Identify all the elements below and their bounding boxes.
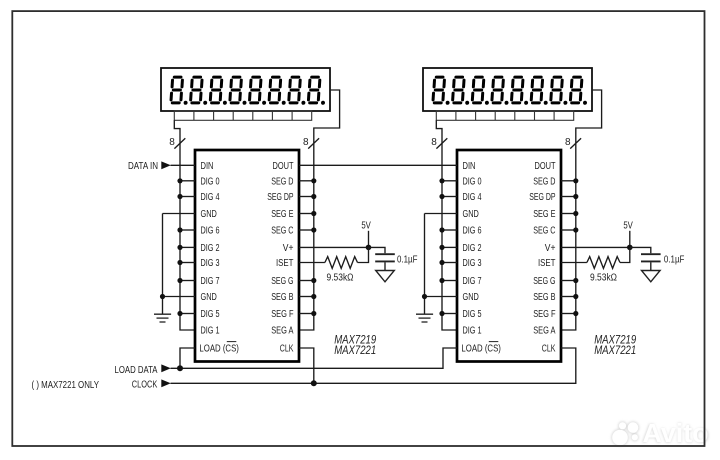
svg-text:ISET: ISET (276, 258, 294, 269)
svg-text:GND: GND (463, 292, 479, 303)
junction dot SEG D on segment bus (573, 178, 578, 183)
wire: U1 DIG 7 pin stub (180, 280, 195, 282)
svg-text:SEG F: SEG F (271, 309, 293, 320)
junction dot DIG 6 on digit bus (177, 227, 182, 232)
svg-text:SEG B: SEG B (271, 292, 293, 303)
svg-text:DIG 4: DIG 4 (463, 192, 482, 203)
svg-text:0.1µF: 0.1µF (397, 254, 418, 266)
svg-text:V+: V+ (545, 243, 556, 254)
svg-text:DIG 0: DIG 0 (463, 176, 482, 187)
part label MAX7219 / MAX7221 (334, 333, 376, 357)
wire: U1 DIG 4 pin stub (180, 196, 195, 198)
wire: DATA IN to U1 DIN (171, 164, 196, 166)
svg-text:MAX7221: MAX7221 (334, 344, 376, 357)
wire: U1 SEG DP pin stub (299, 196, 314, 198)
wire: V+ pin to 5V node (561, 246, 630, 248)
junction dot ground rail at lower GND pin (160, 294, 165, 299)
svg-text:DIG 4: DIG 4 (201, 192, 220, 203)
svg-text:SEG B: SEG B (533, 292, 555, 303)
wire: U2 SEG C pin stub (561, 229, 576, 231)
junction dot CLOCK / U1 CLK (311, 380, 317, 386)
display DS1 connector pin row (174, 111, 311, 120)
junction dot DIG 4 on digit bus (177, 194, 182, 199)
wire: U1 DIG 6 pin stub (180, 229, 195, 231)
svg-text:SEG E: SEG E (533, 209, 556, 220)
wire: 5V node to capacitor C1 (369, 247, 386, 253)
resistor R2 9.53k zigzag (587, 257, 620, 269)
wire: resistor R2 to 5V node (620, 247, 630, 262)
svg-text:DIG 1: DIG 1 (201, 326, 220, 337)
display DS2 digits "8.8.8.8.8.8.8.8." (433, 77, 589, 105)
svg-text:CLK: CLK (542, 344, 556, 355)
svg-text:SEG DP: SEG DP (267, 192, 293, 203)
junction dot LOAD DATA / U1 LOAD (177, 365, 183, 371)
wire: ISET pin to resistor R1 (299, 262, 325, 264)
wire: 5V node to capacitor C2 (630, 247, 651, 253)
wire: U1 SEG G pin stub (299, 280, 314, 282)
wire: U2 SEG DP pin stub (561, 196, 576, 198)
svg-text:SEG A: SEG A (271, 326, 294, 337)
svg-text:8: 8 (169, 137, 175, 148)
wire: capacitor C1 to ground triangle (384, 262, 386, 270)
junction dot 5V/V+ node (627, 245, 633, 251)
svg-text:8: 8 (431, 137, 437, 148)
bus slash (8 lines) on segment bus (570, 138, 581, 148)
wire: U1 DIG 5 pin stub (180, 313, 195, 315)
junction dot DIG 0 on digit bus (439, 178, 444, 183)
wire: CLOCK line to U2 CLK (171, 348, 576, 383)
wire: U2 GND pin row 9 to ground rail (425, 296, 458, 298)
wire: U1 DIG 2 pin stub (180, 246, 195, 248)
junction dot SEG B on segment bus (573, 294, 578, 299)
junction dot ground rail at lower GND pin (422, 294, 427, 299)
svg-text:LOAD DATA: LOAD DATA (115, 364, 158, 376)
wire: ISET pin to resistor R2 (561, 262, 587, 264)
LOAD DATA input arrow (161, 364, 171, 372)
wire: U1 SEG C pin stub (299, 229, 314, 231)
wire: U2 DIG 7 pin stub (442, 280, 457, 282)
svg-text:DIG 5: DIG 5 (201, 309, 220, 320)
svg-text:DIN: DIN (463, 161, 476, 172)
triangle ground symbol (C1) (376, 271, 395, 282)
svg-text:DIN: DIN (201, 161, 214, 172)
pin label LOAD (CS-bar) (199, 342, 239, 355)
IC U1 MAX7219/MAX7221 body (195, 150, 299, 362)
CLOCK input arrow (161, 379, 171, 387)
svg-text:8: 8 (565, 137, 571, 148)
junction dot DIG 0 on digit bus (177, 178, 182, 183)
junction dot SEG C on segment bus (311, 227, 316, 232)
svg-text:( ) MAX7221 ONLY: ( ) MAX7221 ONLY (32, 379, 100, 391)
junction dot DIG 3 on digit bus (439, 260, 444, 265)
svg-text:LOAD (CS): LOAD (CS) (461, 344, 501, 355)
junction dot DIG 7 on digit bus (177, 278, 182, 283)
junction dot SEG E on segment bus (311, 211, 316, 216)
svg-text:9.53kΩ: 9.53kΩ (327, 272, 354, 284)
junction dot DIG 2 on digit bus (177, 245, 182, 250)
svg-text:DIG 5: DIG 5 (463, 309, 482, 320)
bus slash (8 lines) on segment bus (308, 138, 319, 148)
wire: U1 SEG B pin stub (299, 296, 314, 298)
junction dot DIG 2 on digit bus (439, 245, 444, 250)
junction dot DIG 5 on digit bus (439, 311, 444, 316)
pin label LOAD (CS-bar) (461, 342, 501, 355)
resistor R1 9.53k zigzag (325, 257, 358, 269)
svg-text:DIG 7: DIG 7 (463, 276, 482, 287)
wire: digit bus from display connector to DIG pin column (174, 120, 195, 330)
junction dot SEG DP on segment bus (573, 194, 578, 199)
svg-text:GND: GND (201, 292, 217, 303)
svg-text:SEG DP: SEG DP (529, 192, 555, 203)
capacitor C1 0.1uF plates (375, 254, 395, 261)
wire: U2 SEG G pin stub (561, 280, 576, 282)
svg-text:DIG 6: DIG 6 (463, 226, 482, 237)
svg-text:CLOCK: CLOCK (132, 379, 158, 391)
svg-text:DIG 2: DIG 2 (463, 243, 482, 254)
wire: U1 LOAD (CS) pin drop to LOAD DATA line (180, 348, 195, 368)
wire: resistor R1 to 5V node (358, 247, 369, 262)
wire: U2 SEG F pin stub (561, 313, 576, 315)
wire: U1 CLK pin drop to CLOCK line (299, 348, 314, 383)
junction dot DIG 5 on digit bus (177, 311, 182, 316)
svg-text:ISET: ISET (538, 258, 556, 269)
wire: V+ pin to 5V node (299, 246, 369, 248)
display DS2: 8-digit seven-segment module body (423, 68, 592, 111)
svg-text:V+: V+ (283, 243, 294, 254)
wire: U1 ground rail vertical (162, 214, 164, 315)
wire: U1 DOUT to U2 DIN (299, 164, 457, 166)
svg-text:DIG 3: DIG 3 (201, 258, 220, 269)
wire: U1 GND pin row 4 to ground rail (163, 213, 196, 215)
svg-text:DIG 6: DIG 6 (201, 226, 220, 237)
svg-text:CLK: CLK (280, 344, 294, 355)
svg-text:GND: GND (463, 209, 479, 220)
wire: LOAD DATA line to U2 LOAD (171, 348, 458, 368)
wire: segment bus from display right edge to SEG pin column (299, 90, 340, 330)
wire: U2 SEG B pin stub (561, 296, 576, 298)
wire: U1 DIG 3 pin stub (180, 262, 195, 264)
capacitor C2 0.1uF plates (641, 254, 661, 261)
wire: U2 DIG 2 pin stub (442, 246, 457, 248)
junction dot SEG B on segment bus (311, 294, 316, 299)
watermark (decorative) (611, 419, 709, 449)
svg-text:SEG A: SEG A (533, 326, 556, 337)
bus slash (8 lines) on digit bus (174, 138, 185, 148)
net 5V supply wire (629, 231, 631, 248)
net 5V supply wire (368, 231, 370, 248)
display DS1 digits "8.8.8.8.8.8.8.8." (171, 77, 327, 105)
junction dot SEG C on segment bus (573, 227, 578, 232)
svg-text:DOUT: DOUT (273, 161, 294, 172)
svg-text:9.53kΩ: 9.53kΩ (590, 272, 617, 284)
wire: U1 DIG 0 pin stub (180, 180, 195, 182)
svg-text:SEG F: SEG F (533, 309, 555, 320)
svg-text:DIG 7: DIG 7 (201, 276, 220, 287)
svg-text:SEG C: SEG C (533, 226, 555, 237)
wire: capacitor C2 to ground triangle (650, 262, 652, 270)
wire: digit bus from display connector to DIG pin column (436, 120, 457, 330)
bus slash (8 lines) on digit bus (436, 138, 447, 148)
svg-text:SEG C: SEG C (271, 226, 293, 237)
wire: U2 ground rail vertical (424, 214, 426, 315)
svg-text:5V: 5V (623, 220, 633, 232)
svg-text:DIG 3: DIG 3 (463, 258, 482, 269)
svg-text:8: 8 (303, 137, 309, 148)
junction dot DIG 4 on digit bus (439, 194, 444, 199)
wire: U1 SEG D pin stub (299, 180, 314, 182)
svg-text:MAX7221: MAX7221 (594, 344, 636, 357)
display DS2 connector pin row (436, 111, 573, 120)
wire: U1 SEG F pin stub (299, 313, 314, 315)
junction dot SEG E on segment bus (573, 211, 578, 216)
wire: segment bus from display right edge to SEG pin column (561, 90, 602, 330)
DATA IN input arrow (161, 161, 171, 169)
part label MAX7219 / MAX7221 (594, 333, 636, 357)
junction dot SEG G on segment bus (573, 278, 578, 283)
wire: U2 GND pin row 4 to ground rail (425, 213, 458, 215)
svg-text:SEG G: SEG G (533, 276, 555, 287)
svg-text:Avito: Avito (643, 420, 709, 448)
wire: U1 SEG E pin stub (299, 213, 314, 215)
wire: U2 DIG 3 pin stub (442, 262, 457, 264)
wire: U2 DIG 6 pin stub (442, 229, 457, 231)
wire: U1 GND pin row 9 to ground rail (163, 296, 196, 298)
svg-text:SEG D: SEG D (533, 176, 555, 187)
wire: U2 SEG D pin stub (561, 180, 576, 182)
display DS1: 8-digit seven-segment module body (161, 68, 330, 111)
wire: U2 DIG 0 pin stub (442, 180, 457, 182)
svg-text:SEG E: SEG E (271, 209, 294, 220)
junction dot 5V/V+ node (366, 245, 372, 251)
junction dot DIG 6 on digit bus (439, 227, 444, 232)
IC U2 MAX7219/MAX7221 body (457, 150, 561, 362)
earth ground symbol (U1 GND) (154, 314, 171, 322)
svg-text:DIG 0: DIG 0 (201, 176, 220, 187)
earth ground symbol (U2 GND) (416, 314, 433, 322)
junction dot SEG F on segment bus (311, 311, 316, 316)
junction dot DIG 7 on digit bus (439, 278, 444, 283)
svg-text:LOAD (CS): LOAD (CS) (199, 344, 239, 355)
triangle ground symbol (C2) (642, 271, 661, 282)
junction dot SEG DP on segment bus (311, 194, 316, 199)
svg-text:DIG 2: DIG 2 (201, 243, 220, 254)
junction dot DIG 3 on digit bus (177, 260, 182, 265)
svg-text:5V: 5V (361, 220, 371, 232)
wire: U2 DIG 5 pin stub (442, 313, 457, 315)
svg-text:DATA IN: DATA IN (128, 160, 158, 172)
junction dot SEG G on segment bus (311, 278, 316, 283)
svg-text:SEG D: SEG D (271, 176, 293, 187)
svg-text:DOUT: DOUT (535, 161, 556, 172)
svg-text:GND: GND (201, 209, 217, 220)
svg-text:DIG 1: DIG 1 (463, 326, 482, 337)
svg-text:0.1µF: 0.1µF (664, 254, 685, 266)
svg-text:SEG G: SEG G (271, 276, 293, 287)
wire: U2 SEG E pin stub (561, 213, 576, 215)
junction dot SEG D on segment bus (311, 178, 316, 183)
junction dot SEG F on segment bus (573, 311, 578, 316)
wire: U2 DIG 4 pin stub (442, 196, 457, 198)
